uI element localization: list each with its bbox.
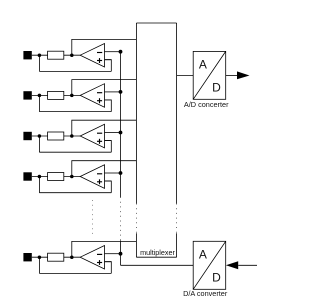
wire: riser from + input wire down to bottom return (105, 181, 112, 193)
wire: op-amp - input to feedback bus (105, 172, 121, 174)
wire: op-amp + input out of right edge (105, 59, 112, 61)
junction dot: node B3 (70, 134, 74, 138)
wire: node A1 down to feedback return (38, 55, 40, 71)
wire: node B5 up and over to multiplexer input 5 (72, 241, 137, 257)
wire: node A2 down to feedback return (38, 95, 40, 111)
wire: op-amp - input to feedback bus (105, 91, 121, 93)
junction dot: input node A2 (38, 94, 42, 98)
junction dot: node B2 (70, 94, 74, 98)
junction dot: input node A3 (38, 134, 42, 138)
op-amp U1 (triangle) (80, 44, 104, 68)
wire: input terminal to resistor R1 (32, 54, 48, 56)
wire: bus solid upper segment (120, 52, 122, 197)
multiplexer top edge (136, 22, 176, 24)
input terminal square (channel 3) (23, 132, 31, 140)
wire: resistor R5 to op-amp node B5 (64, 256, 81, 258)
stage 3: channel 3 input circuit (23, 120, 136, 152)
multiplexer right edge lower solid (176, 233, 178, 257)
wire: op-amp - input to feedback bus (105, 253, 121, 255)
junction dot: input node A5 (38, 255, 42, 259)
junction dot: node B1 (70, 53, 74, 57)
wire: bus bottom run to D/A converter output (121, 264, 194, 266)
D/A converter U7 (183, 241, 257, 297)
wire: A/D converter digital output (226, 75, 238, 77)
wire: input terminal to resistor R3 (32, 135, 48, 137)
wire: resistor R3 to op-amp node B3 (64, 135, 81, 137)
stage 1: channel 1 input circuit (23, 39, 136, 71)
svg-text:D: D (212, 271, 221, 285)
wire: multiplexer output to A/D converter (177, 75, 194, 77)
op-amp U3 inverting input label - (97, 132, 102, 134)
resistor R1 (48, 51, 64, 59)
multiplexer box (136, 23, 176, 257)
op-amp U1 inverting input label - (97, 52, 102, 54)
feedback bus (vertical, from C1 down) (121, 52, 194, 266)
junction dot: bus tap C3 (119, 131, 123, 135)
wire: resistor R2 to op-amp node B2 (64, 94, 81, 96)
multiplexer bottom edge (136, 256, 176, 258)
multiplexer right edge upper solid (176, 23, 178, 204)
wire: bottom feedback return to op-amp + input (39, 151, 111, 153)
wire: op-amp - input to feedback bus (105, 132, 121, 134)
wire: node B3 up and over to multiplexer input 3 (72, 120, 137, 136)
resistor R5 (48, 253, 64, 261)
svg-text:A: A (199, 57, 207, 71)
op-amp U2 (triangle) (80, 84, 104, 108)
wire: riser from + input wire down to bottom return (105, 262, 112, 274)
op-amp U3 (triangle) (80, 124, 104, 148)
stage 4: channel 4 input circuit (23, 161, 136, 193)
op-amp U2 non-inverting input label + (97, 100, 102, 102)
wire: op-amp + input out of right edge (105, 180, 112, 182)
op-amp U4 inverting input label - (97, 173, 102, 175)
wire: bottom feedback return to op-amp + input (39, 272, 111, 274)
wire: node A5 down to feedback return (38, 257, 40, 273)
wire: riser from + input wire down to bottom return (105, 141, 112, 153)
arrow: digital input into D/A converter (226, 261, 238, 269)
input terminal square (channel 1) (23, 51, 31, 59)
wire: op-amp + input out of right edge (105, 140, 112, 142)
multiplexer right edge dotted middle (176, 204, 178, 234)
wire: node B1 up and over to multiplexer input 1 (72, 39, 137, 55)
junction dot: bus tap C5 (119, 252, 123, 256)
multiplexer left edge lower solid (135, 233, 137, 257)
op-amp U1 non-inverting input label + (97, 60, 102, 62)
op-amp U4 non-inverting input label + (97, 181, 102, 183)
wire: bus solid lower segment (120, 241, 122, 266)
op-amp U5 inverting input label - (97, 253, 102, 255)
junction dot: input node A1 (38, 53, 42, 57)
junction dot: bus tap C4 (119, 171, 123, 175)
wire: node B2 up and over to multiplexer input 2 (72, 80, 137, 96)
wire: bottom feedback return to op-amp + input (39, 70, 111, 72)
wire: digital input line from right edge (238, 264, 257, 266)
wire: riser from + input wire down to bottom return (105, 100, 112, 112)
stage 2: channel 2 input circuit (23, 80, 136, 112)
input terminal square (channel 4) (23, 172, 31, 180)
wire: op-amp + input out of right edge (105, 261, 112, 263)
wire: input terminal to resistor R5 (32, 256, 48, 258)
wire: node A3 down to feedback return (38, 136, 40, 152)
A/D converter diagonal (193, 51, 226, 99)
resistor R3 (48, 132, 64, 140)
svg-text:A/D concerter: A/D concerter (184, 100, 229, 109)
junction dot: node B4 (70, 175, 74, 179)
A/D converter box (193, 51, 226, 99)
svg-text:multiplexer: multiplexer (140, 248, 175, 257)
junction dot: node B5 (70, 255, 74, 259)
op-amp U5 (triangle) (80, 246, 104, 270)
junction dot: bus tap C1 (119, 50, 123, 54)
D/A converter diagonal (193, 241, 226, 289)
wire: resistor R4 to op-amp node B4 (64, 176, 81, 178)
junction dot: input node A4 (38, 175, 42, 179)
wire: bus dotted continuation segment (120, 197, 122, 241)
multiplexer left edge upper solid (135, 23, 137, 204)
wire: op-amp - input to feedback bus (105, 51, 121, 53)
wire: input terminal to resistor R2 (32, 94, 48, 96)
wire: bottom feedback return to op-amp + input (39, 111, 111, 113)
A/D converter U6 (177, 51, 250, 109)
resistor R2 (48, 91, 64, 99)
svg-text:D: D (212, 81, 221, 95)
wire: bottom feedback return to op-amp + input (39, 192, 111, 194)
input terminal square (channel 2) (23, 91, 31, 99)
svg-text:D/A converter: D/A converter (183, 289, 228, 298)
op-amp U5 non-inverting input label + (97, 262, 102, 264)
wire: op-amp + input out of right edge (105, 99, 112, 101)
junction dot: bus tap C2 (119, 90, 123, 94)
stage 5: channel 5 input circuit (23, 241, 136, 273)
op-amp U4 (triangle) (80, 165, 104, 189)
op-amp U3 non-inverting input label + (97, 140, 102, 142)
D/A converter box (193, 241, 226, 289)
wire: riser from + input wire down to bottom return (105, 60, 112, 72)
multiplexer left edge dotted middle (135, 204, 137, 234)
op-amp U2 inverting input label - (97, 92, 102, 94)
arrow: digital output (237, 71, 250, 79)
wire: input terminal to resistor R4 (32, 176, 48, 178)
vertical ellipsis dots (more channels indicator) (92, 200, 94, 235)
input terminal square (channel 5) (23, 253, 31, 261)
resistor R4 (48, 173, 64, 181)
wire: node B4 up and over to multiplexer input 4 (72, 161, 137, 177)
svg-text:A: A (199, 247, 207, 261)
wire: resistor R1 to op-amp node B1 (64, 54, 81, 56)
wire: node A4 down to feedback return (38, 177, 40, 193)
